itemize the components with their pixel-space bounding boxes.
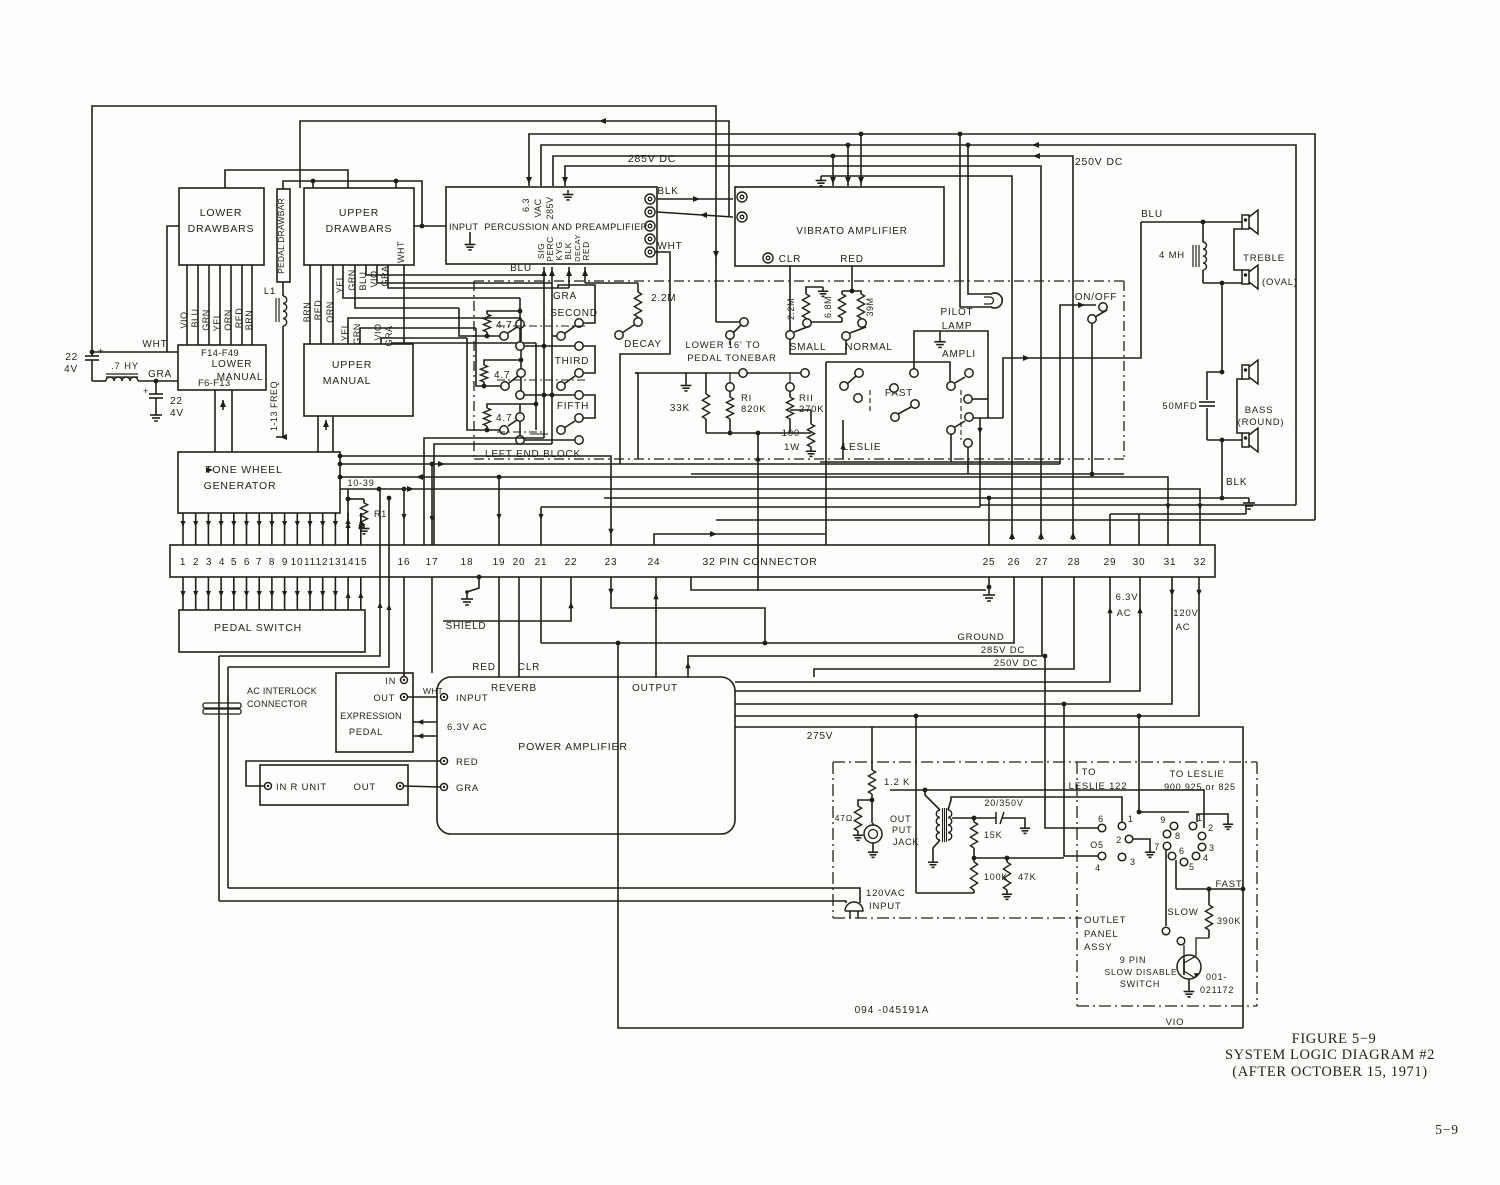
- svg-text:ORN: ORN: [325, 301, 335, 323]
- svg-text:15: 15: [355, 557, 368, 568]
- svg-text:RED: RED: [581, 241, 591, 260]
- box LOWER DRAWBARS: [179, 188, 264, 265]
- line 275V sibling to 9pin: [890, 790, 1204, 828]
- svg-text:250V DC: 250V DC: [1075, 156, 1123, 168]
- resistor 47ohm: [858, 800, 872, 806]
- wire top outer loop: [92, 106, 716, 352]
- speaker BASS top driver: [1242, 365, 1249, 379]
- svg-text:4V: 4V: [170, 408, 184, 419]
- leslie 122 socket pins 6 5 4: [1098, 824, 1106, 832]
- wire 285V DC bus outer: [529, 134, 1315, 520]
- FIFTH switch contacts: [575, 414, 583, 422]
- svg-text:29: 29: [1104, 557, 1117, 568]
- leslie 122 pin2 ground: [1133, 839, 1150, 848]
- svg-text:GRN: GRN: [201, 309, 211, 331]
- svg-text:VIO: VIO: [179, 311, 189, 328]
- transistor Q1 001-021172: [1177, 955, 1201, 979]
- line y507: [541, 506, 980, 508]
- wire pin19 RED into power amp: [498, 577, 500, 677]
- svg-text:9: 9: [1160, 815, 1166, 825]
- svg-text:285V: 285V: [545, 196, 555, 219]
- svg-text:OUT: OUT: [354, 782, 376, 793]
- wire top of resistor bank: [635, 372, 739, 374]
- bundle 285V DC line pin27: [688, 577, 1042, 677]
- svg-text:PUT: PUT: [892, 825, 912, 835]
- resistor 390K: [1208, 889, 1210, 905]
- row wire below FIFTH: [516, 436, 524, 444]
- wire RED to R UNIT IN: [246, 761, 440, 786]
- wire bus to pin26: [821, 176, 1012, 540]
- svg-text:4V: 4V: [64, 364, 78, 375]
- svg-text:3: 3: [1209, 843, 1215, 853]
- svg-text:22: 22: [65, 352, 78, 363]
- svg-text:LESLIE: LESLIE: [843, 442, 882, 453]
- decay switch: [615, 331, 623, 339]
- svg-text:4 MH: 4 MH: [1159, 250, 1185, 261]
- svg-text:4: 4: [1095, 863, 1101, 873]
- svg-text:13: 13: [329, 557, 342, 568]
- svg-text:DRAWBARS: DRAWBARS: [326, 223, 393, 235]
- svg-text:AC INTERLOCK: AC INTERLOCK: [247, 686, 317, 696]
- lower 16 switch: [726, 331, 734, 339]
- svg-text:50MFD: 50MFD: [1162, 401, 1197, 412]
- svg-text:22: 22: [170, 396, 183, 407]
- svg-text:WHT: WHT: [396, 241, 406, 263]
- box UPPER MANUAL: [304, 344, 413, 416]
- wire pin16 to expression IN: [403, 577, 405, 676]
- svg-text:6: 6: [244, 557, 250, 568]
- wire pin23 down: [611, 577, 765, 643]
- svg-text:LOWER 16' TO: LOWER 16' TO: [686, 340, 761, 351]
- svg-text:OUTLET: OUTLET: [1084, 915, 1126, 926]
- wire L2 tail to pin17: [431, 464, 433, 545]
- wire pin21 ground feed: [540, 577, 542, 643]
- bundle GROUND line pin21 to pin26: [541, 577, 1014, 643]
- svg-text:BLU: BLU: [190, 308, 200, 327]
- svg-text:ON/OFF: ON/OFF: [1075, 292, 1118, 303]
- svg-text:32 PIN CONNECTOR: 32 PIN CONNECTOR: [702, 556, 817, 568]
- svg-text:DRAWBARS: DRAWBARS: [188, 223, 255, 235]
- bass series strap: [1237, 379, 1242, 433]
- svg-text:11: 11: [304, 557, 316, 568]
- box VIBRATO AMPLIFIER: [735, 187, 944, 266]
- bundle 6.3V line pin30: [735, 577, 1140, 691]
- svg-text:20/350V: 20/350V: [984, 798, 1023, 808]
- svg-text:390K: 390K: [1217, 916, 1241, 926]
- SECOND switch contacts: [575, 319, 583, 327]
- svg-text:L1: L1: [264, 286, 276, 297]
- svg-text:6.3V: 6.3V: [1116, 592, 1139, 603]
- svg-text:4.7: 4.7: [496, 413, 512, 424]
- svg-text:7: 7: [1154, 842, 1160, 852]
- svg-text:LEFT END BLOCK: LEFT END BLOCK: [485, 449, 581, 460]
- upper drawbar wires BRN RED ORN: [309, 265, 311, 344]
- svg-text:BLK: BLK: [657, 186, 678, 197]
- svg-text:19: 19: [493, 557, 506, 568]
- svg-text:.7 HY: .7 HY: [111, 361, 139, 372]
- svg-text:10-39: 10-39: [347, 478, 374, 488]
- svg-text:(OVAL): (OVAL): [1262, 277, 1298, 288]
- svg-text:GRN: GRN: [347, 269, 357, 291]
- svg-text:820K: 820K: [741, 404, 766, 415]
- svg-text:VIO: VIO: [369, 270, 379, 287]
- svg-text:7: 7: [256, 557, 262, 568]
- svg-text:ORN: ORN: [223, 309, 233, 331]
- svg-text:LESLIE 122: LESLIE 122: [1069, 781, 1128, 792]
- bundle 120V line pin31: [735, 577, 1172, 704]
- svg-text:27: 27: [1036, 557, 1049, 568]
- capacitor 22/4V lower + ground: [154, 379, 159, 384]
- AC interlock vertical pair: [218, 656, 220, 901]
- resistor 1.2K: [871, 727, 873, 770]
- svg-text:21: 21: [535, 557, 548, 568]
- resistor R2 270K: [786, 383, 794, 391]
- svg-text:SLOW DISABLE: SLOW DISABLE: [1105, 967, 1178, 977]
- wire pin17 down: [431, 577, 433, 673]
- line y505: [980, 504, 1296, 506]
- svg-text:6.8M: 6.8M: [823, 296, 833, 318]
- svg-text:30: 30: [1133, 557, 1146, 568]
- shield ground: [477, 575, 482, 580]
- svg-text:INPUT: INPUT: [869, 901, 902, 912]
- output transformer T1: [936, 810, 940, 840]
- svg-text:SYSTEM LOGIC DIAGRAM #2: SYSTEM LOGIC DIAGRAM #2: [1225, 1047, 1435, 1063]
- svg-text:PILOT: PILOT: [941, 307, 974, 318]
- svg-text:6: 6: [1179, 846, 1185, 856]
- svg-text:47Ω: 47Ω: [835, 813, 853, 823]
- svg-text:RED: RED: [456, 757, 478, 768]
- speaker return BLK ground line: [604, 497, 1222, 499]
- svg-text:32: 32: [1194, 557, 1207, 568]
- svg-text:+: +: [143, 386, 149, 396]
- svg-text:SMALL: SMALL: [790, 342, 827, 353]
- wire pin21 feed: [540, 507, 542, 545]
- svg-text:OUTPUT: OUTPUT: [632, 683, 678, 694]
- svg-text:9: 9: [282, 557, 288, 568]
- svg-text:NORMAL: NORMAL: [845, 342, 893, 353]
- svg-text:BASS: BASS: [1245, 405, 1274, 416]
- SMALL switch: [786, 331, 794, 339]
- 6.3V AC arrows into expression pedal: [413, 721, 437, 723]
- svg-text:TREBLE: TREBLE: [1243, 253, 1285, 264]
- wires into preamp bottom: [543, 267, 545, 275]
- svg-text:900,925,or 825: 900,925,or 825: [1164, 782, 1236, 792]
- svg-text:TO: TO: [1082, 767, 1097, 778]
- svg-text:GENERATOR: GENERATOR: [204, 480, 277, 492]
- wire 15K bottom line: [974, 857, 1064, 859]
- wire 10-39 freq line: [340, 489, 1200, 545]
- resistor R1 820K: [726, 383, 734, 391]
- relay wire to 505 line: [950, 434, 952, 462]
- wire bus to vibrato left: [565, 166, 1041, 540]
- wire WHT to lower manual: [92, 351, 178, 353]
- svg-text:RED: RED: [840, 254, 864, 265]
- THIRD switch contacts: [575, 369, 583, 377]
- box POWER AMPLIFIER: [437, 677, 735, 834]
- svg-text:ASSY: ASSY: [1084, 942, 1113, 953]
- svg-text:2: 2: [1116, 835, 1122, 845]
- dashed box outlet panel assy: [1076, 762, 1078, 1006]
- svg-text:6.3: 6.3: [521, 198, 531, 212]
- svg-text:THIRD: THIRD: [555, 356, 590, 367]
- svg-text:18: 18: [461, 557, 474, 568]
- AC interlock connector symbol: [203, 703, 241, 708]
- svg-text:INPUT: INPUT: [456, 693, 489, 704]
- svg-text:47K: 47K: [1018, 872, 1036, 882]
- wire pin16 from 10-39 line: [403, 489, 405, 545]
- box 32 PIN CONNECTOR: [170, 545, 1215, 577]
- svg-text:BLK: BLK: [563, 242, 573, 260]
- wire expression OUT to power amp INPUT: [408, 696, 438, 698]
- ground near ampli: [939, 331, 941, 337]
- svg-text:RI: RI: [741, 393, 752, 404]
- wires lower manual to tone generator: [214, 390, 216, 452]
- NORMAL switch: [842, 332, 850, 340]
- svg-text:O5: O5: [1090, 840, 1104, 850]
- svg-text:OUT: OUT: [374, 693, 395, 703]
- resistor 15K: [973, 818, 975, 822]
- svg-text:BLK: BLK: [1226, 477, 1247, 488]
- svg-text:250V DC: 250V DC: [994, 658, 1038, 669]
- wire y462 on/off feed: [967, 447, 969, 474]
- svg-text:RED: RED: [234, 308, 244, 329]
- svg-text:EXPRESSION: EXPRESSION: [340, 711, 402, 721]
- svg-text:285V DC: 285V DC: [981, 645, 1025, 656]
- box PEDAL DRAWBAR: [277, 189, 290, 282]
- 120VAC feeder wires: [228, 888, 860, 903]
- svg-text:DECAY: DECAY: [624, 339, 662, 350]
- bass return wire BLK: [1221, 440, 1223, 498]
- svg-text:WHT: WHT: [142, 339, 167, 350]
- svg-text:2: 2: [193, 557, 199, 568]
- svg-text:PANEL: PANEL: [1084, 929, 1118, 940]
- upper drawbar staircase wires YEL GRN BLU VIO GRA WHT: [343, 265, 520, 298]
- resistor 100 1W: [807, 424, 814, 447]
- svg-text:26: 26: [1008, 557, 1021, 568]
- wires upper manual down: [317, 416, 319, 452]
- svg-text:GRA: GRA: [553, 291, 577, 302]
- line y520 outer bottom: [716, 519, 1315, 521]
- 9pin ground: [1197, 814, 1228, 822]
- treble series strap: [1234, 229, 1242, 270]
- wire over drawbar boxes 1: [225, 170, 348, 188]
- resistor 47K: [1006, 858, 1008, 862]
- svg-text:GROUND: GROUND: [957, 632, 1004, 643]
- svg-text:001-: 001-: [1206, 972, 1227, 982]
- harmonic cell THIRD 4.7 resistor: [480, 365, 487, 382]
- svg-text:31: 31: [1164, 557, 1177, 568]
- secondary tap wire: [952, 817, 996, 819]
- wire pin25 up to speaker ground line: [988, 498, 990, 545]
- box EXPRESSION PEDAL: [336, 673, 413, 752]
- svg-text:AC: AC: [1117, 608, 1132, 619]
- ground 33K: [685, 373, 687, 381]
- wire RED down to resistors: [851, 266, 853, 291]
- svg-text:PERCUSSION AND PREAMPLIFIER: PERCUSSION AND PREAMPLIFIER: [484, 222, 647, 232]
- wire 250V DC bus: [553, 156, 1073, 540]
- svg-text:9 PIN: 9 PIN: [1120, 955, 1147, 965]
- svg-text:TONE WHEEL: TONE WHEEL: [205, 464, 282, 476]
- svg-text:AC: AC: [1176, 622, 1191, 633]
- svg-text:28: 28: [1068, 557, 1081, 568]
- svg-text:IN R UNIT: IN R UNIT: [276, 782, 327, 793]
- bundle 250V DC line pin28: [814, 577, 1074, 677]
- svg-text:OUT: OUT: [890, 814, 911, 824]
- dashed box amplifier chassis: [833, 761, 1257, 763]
- ground line below pin25: [691, 577, 986, 590]
- svg-text:GRA: GRA: [148, 369, 172, 380]
- svg-text:RED: RED: [472, 662, 496, 673]
- wire inner top bus: [541, 145, 1296, 505]
- svg-text:1-13 FREQ: 1-13 FREQ: [269, 381, 279, 431]
- svg-text:YEL: YEL: [335, 275, 345, 294]
- svg-text:UPPER: UPPER: [339, 207, 379, 219]
- svg-text:1.2 K: 1.2 K: [884, 777, 910, 788]
- svg-text:SECOND: SECOND: [550, 308, 598, 319]
- svg-text:15K: 15K: [984, 830, 1002, 840]
- resistor 39M: [842, 291, 861, 294]
- svg-text:25: 25: [983, 557, 996, 568]
- svg-text:MANUAL: MANUAL: [323, 375, 372, 387]
- wire 100K return to bundle: [914, 714, 919, 719]
- bottom long wire: [618, 834, 1243, 1028]
- resistor R1 to ground: [346, 497, 351, 502]
- box UPPER DRAWBARS: [304, 188, 414, 265]
- relay output wire to BLU: [1003, 222, 1141, 418]
- wire treble to bass: [1221, 283, 1223, 372]
- pilot lamp: [982, 293, 1002, 308]
- svg-text:16: 16: [398, 557, 411, 568]
- svg-text:4: 4: [1203, 853, 1209, 863]
- svg-text:TO LESLIE: TO LESLIE: [1169, 769, 1224, 780]
- resistor 100K: [970, 862, 977, 890]
- svg-text:4.7: 4.7: [494, 370, 510, 381]
- svg-text:23: 23: [605, 557, 618, 568]
- svg-text:YEL: YEL: [340, 323, 350, 342]
- svg-text:8: 8: [1175, 831, 1181, 841]
- wire pin20 CLR into power amp: [518, 577, 520, 677]
- svg-text:IN: IN: [385, 676, 396, 686]
- gang dash lines: [497, 325, 586, 327]
- svg-text:10: 10: [291, 557, 304, 568]
- svg-text:RII: RII: [799, 393, 814, 404]
- harmonic cell SECOND 4.7 resistor: [483, 314, 490, 332]
- wire second top line: [300, 121, 729, 217]
- wire WHT jack down: [620, 252, 670, 464]
- svg-text:(ROUND): (ROUND): [1238, 417, 1285, 428]
- svg-text:VAC: VAC: [533, 198, 543, 217]
- svg-text:SLOW: SLOW: [1167, 907, 1198, 918]
- output jack: [864, 825, 882, 843]
- wire secondary to leslie pin1: [948, 797, 1122, 822]
- svg-text:LOWER: LOWER: [212, 359, 253, 370]
- wire short line y514 pins29-30: [1110, 513, 1246, 515]
- row wire below THIRD: [516, 391, 524, 399]
- 9 pin socket pins: [1170, 822, 1178, 830]
- vibrato jacks: [737, 192, 747, 202]
- svg-text:100: 100: [782, 428, 800, 439]
- svg-text:285V DC: 285V DC: [628, 153, 676, 165]
- svg-text:BRN: BRN: [244, 310, 254, 331]
- svg-text:12: 12: [316, 557, 329, 568]
- svg-text:(AFTER OCTOBER 15, 1971): (AFTER OCTOBER 15, 1971): [1232, 1064, 1427, 1080]
- svg-text:BRN: BRN: [302, 302, 312, 323]
- box LOWER MANUAL: [178, 345, 266, 390]
- preamp internal ground: [567, 190, 569, 195]
- wire pin30 down to 9 pin socket: [1138, 716, 1140, 812]
- svg-text:GRA: GRA: [380, 265, 390, 286]
- capacitor 22/4V upper: [91, 352, 93, 356]
- ground line branch down through power amp: [617, 643, 619, 834]
- bundle 6.3V line pin29: [735, 577, 1110, 682]
- svg-text:F14-F49: F14-F49: [201, 348, 239, 359]
- tone generator output wires to 32 pin connector pins 1-15: [182, 513, 184, 545]
- svg-text:GRA: GRA: [456, 783, 479, 794]
- wires right of pedal switch to interlock: [219, 489, 380, 656]
- small normal common wire: [790, 339, 846, 354]
- wire pin22: [443, 577, 571, 621]
- bundle 120V line pin32: [735, 577, 1199, 716]
- box IN R UNIT: [260, 765, 408, 805]
- svg-text:PEDAL: PEDAL: [349, 727, 383, 737]
- svg-text:VIO: VIO: [373, 323, 383, 340]
- wire over drawbar boxes 2: [283, 181, 422, 226]
- ampli relay contacts: [910, 369, 918, 377]
- svg-text:24: 24: [648, 557, 661, 568]
- svg-text:1: 1: [180, 557, 186, 568]
- treble bottom wire: [1203, 282, 1242, 284]
- wire pin19 from L3: [498, 477, 500, 545]
- lower drawbar wires VIO BLU GRN YEL ORN RED BRN: [186, 265, 188, 345]
- svg-text:094 -045191A: 094 -045191A: [855, 1005, 930, 1016]
- wires connector to pedal switch: [182, 577, 184, 610]
- svg-text:BLU: BLU: [510, 263, 532, 274]
- svg-text:SWITCH: SWITCH: [1120, 979, 1160, 989]
- wire vibrato to preamp: [657, 212, 733, 217]
- svg-text:FIGURE 5−9: FIGURE 5−9: [1292, 1031, 1377, 1047]
- harmonic cell FIFTH 4.7 resistor: [483, 408, 490, 426]
- svg-text:BLU: BLU: [1141, 209, 1163, 220]
- FAST switch cluster: [855, 369, 863, 377]
- svg-text:VIO: VIO: [1166, 1017, 1185, 1028]
- svg-text:POWER AMPLIFIER: POWER AMPLIFIER: [518, 741, 627, 753]
- svg-text:FAST: FAST: [885, 388, 913, 399]
- wire pin24 OUTPUT feed: [654, 534, 825, 545]
- ground inside preamp input: [469, 240, 471, 245]
- svg-text:3: 3: [206, 557, 212, 568]
- vibrato top feed wires: [832, 156, 834, 186]
- dashed box LEFT END BLOCK: [474, 280, 1124, 282]
- svg-text:2.2M: 2.2M: [786, 298, 796, 320]
- svg-text:PEDAL SWITCH: PEDAL SWITCH: [214, 622, 302, 634]
- speaker TREBLE top driver: [1242, 215, 1249, 229]
- bundle 275V line: [735, 727, 1243, 1028]
- svg-text:6: 6: [1098, 814, 1104, 824]
- svg-text:20: 20: [513, 557, 526, 568]
- speaker treble lower driver (OVAL): [1242, 270, 1249, 284]
- pin15 feed: [360, 513, 362, 531]
- svg-text:2: 2: [1208, 823, 1214, 833]
- wire 2.2M bottom to 6.8M: [811, 321, 842, 323]
- resistor 33K: [705, 373, 707, 394]
- svg-text:33K: 33K: [670, 403, 690, 414]
- svg-text:17: 17: [426, 557, 439, 568]
- leslie 122 socket pins 1 2 3: [1118, 822, 1126, 830]
- speaker bass lower driver: [1242, 433, 1249, 447]
- svg-text:4: 4: [219, 557, 225, 568]
- svg-text:1: 1: [1128, 814, 1134, 824]
- resistor bank bottom bus: [706, 432, 811, 434]
